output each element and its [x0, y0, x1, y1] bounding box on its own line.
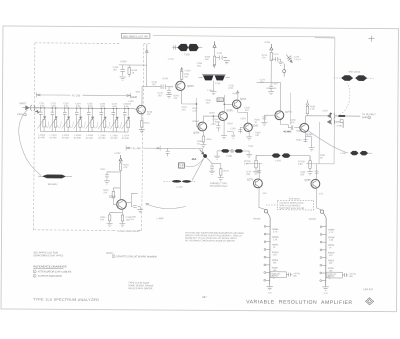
input coax cable curve [18, 110, 41, 176]
transistor Q285 [311, 179, 320, 188]
svg-text:Q255: Q255 [226, 109, 233, 112]
resistor R275B [307, 156, 313, 175]
coax to bowtie dashed curve [339, 83, 350, 115]
sel box 4.7 [179, 163, 185, 168]
cable shield T230 [42, 174, 66, 178]
Q265 emitter ground [238, 127, 252, 140]
svg-text:+225V: +225V [114, 153, 121, 155]
tuning arrow C238 [122, 117, 130, 129]
FL-260 enclosure bottom [113, 229, 142, 232]
svg-text:J-290: J-290 [336, 125, 342, 127]
level capacitor [342, 273, 348, 277]
svg-text:+225V: +225V [264, 42, 271, 44]
C273 [276, 57, 284, 65]
svg-text:46.4: 46.4 [218, 99, 223, 102]
svg-text:C291: C291 [322, 110, 328, 112]
Q264 collector [236, 90, 247, 123]
transistor Q264 [233, 100, 241, 108]
T255 secondary lead [211, 81, 217, 95]
svg-text:TUNED AMPLIFIER: TUNED AMPLIFIER [117, 230, 139, 233]
column ground [322, 285, 328, 290]
level capacitor [286, 273, 292, 277]
svg-text:82-460: 82-460 [74, 138, 82, 140]
vertical feed wire [289, 93, 291, 125]
Q260 emitter network [107, 209, 126, 227]
gang coupling arcs [45, 121, 121, 128]
svg-text:R270: R270 [223, 171, 229, 173]
+225V feed for Q260 [119, 155, 122, 161]
stub capacitor [166, 148, 170, 156]
wafer switch column SW280A [269, 217, 271, 284]
Q255 wires [216, 95, 232, 139]
tuning arrow C231 [38, 116, 46, 128]
reference drawing 1 [33, 270, 36, 273]
inductor L270 [163, 180, 196, 183]
base bypass vertical [166, 87, 172, 98]
svg-text:+225V: +225V [184, 70, 191, 72]
filter section C233 [63, 108, 70, 132]
svg-text:L-290: L-290 [340, 153, 346, 155]
svg-text:C273: C273 [273, 54, 279, 56]
T260 return ground [214, 151, 252, 160]
shield enclosure FL-230 [34, 43, 150, 231]
svg-text:82-460: 82-460 [62, 137, 70, 139]
wafer contact Q285 [320, 210, 323, 213]
svg-text:47K: 47K [123, 167, 127, 169]
svg-text:82-460: 82-460 [50, 137, 58, 139]
svg-text:NOTE:: NOTE: [106, 252, 114, 255]
svg-text:47K: 47K [147, 114, 151, 116]
svg-text:L274: L274 [273, 84, 279, 86]
svg-text:L-233A: L-233A [74, 134, 82, 137]
svg-text:L-275: L-275 [275, 161, 282, 163]
svg-text:SEE NOTE: SEE NOTE [289, 198, 301, 200]
svg-text:-12V: -12V [268, 292, 273, 294]
cable stub [38, 175, 72, 177]
svg-text:C261: C261 [100, 169, 106, 171]
top supply rail [153, 36, 335, 38]
wafer contact Q275 [264, 210, 267, 213]
R262 divider [112, 188, 120, 202]
C266 output cap [131, 203, 143, 213]
cluster interstage wires [196, 98, 235, 138]
svg-text:6.8K: 6.8K [244, 163, 249, 165]
wiper arrow [200, 149, 204, 154]
C261 branch [104, 172, 121, 184]
svg-text:L-231A: L-231A [50, 134, 58, 137]
svg-text:Q285: Q285 [304, 179, 311, 182]
filter section C232 [50, 108, 57, 132]
bias row wire [256, 82, 280, 110]
filter section C237 [111, 108, 118, 132]
R261 [119, 161, 122, 181]
svg-text:4.7K: 4.7K [273, 232, 278, 234]
svg-text:82-460: 82-460 [86, 138, 94, 140]
svg-text:27K: 27K [103, 192, 107, 194]
svg-text:SW280: SW280 [253, 218, 261, 220]
svg-text:POSITION ONLY: POSITION ONLY [210, 186, 228, 188]
svg-text:L-235A: L-235A [99, 134, 107, 137]
title diamond [366, 298, 374, 305]
column ground [266, 284, 272, 289]
resolution note box [277, 200, 314, 210]
transistor Q274 [275, 111, 284, 120]
svg-text:Q240: Q240 [130, 95, 137, 99]
svg-text:SWITCHES WITH SW-280: SWITCHES WITH SW-280 [279, 208, 305, 210]
svg-text:R257: R257 [215, 122, 221, 124]
coupling capacitor C247 [147, 84, 174, 89]
svg-text:C264: C264 [240, 118, 246, 120]
svg-text:INPUT: INPUT [19, 103, 27, 105]
lead to L270 [192, 158, 204, 181]
svg-text:R284: R284 [296, 140, 302, 142]
R253 [213, 47, 216, 68]
switching rail [247, 37, 335, 164]
T260 transformer [217, 149, 247, 153]
svg-text:R253A: R253A [192, 120, 199, 123]
svg-text:L-234A: L-234A [86, 134, 94, 137]
svg-text:RG-58/U: RG-58/U [48, 183, 58, 186]
Q254 wires [196, 104, 219, 148]
svg-text:2.2K: 2.2K [310, 109, 315, 111]
svg-text:82-460: 82-460 [111, 138, 119, 140]
input connector J-230 [22, 105, 39, 113]
svg-text:L&R 437: L&R 437 [363, 287, 374, 291]
filter section C235 [87, 108, 94, 132]
svg-text:R264: R264 [227, 123, 233, 125]
svg-text:R254: R254 [206, 139, 212, 141]
Q275 emitter wire [259, 188, 265, 210]
svg-text:2.2K: 2.2K [329, 240, 334, 242]
svg-text:ATTENUATOR & RF CABLES: ATTENUATOR & RF CABLES [38, 270, 72, 273]
svg-text:L-237A: L-237A [122, 134, 130, 137]
+225V feed arrow [213, 41, 216, 47]
cal adjust box [326, 272, 342, 278]
Q250 emitter wire [181, 90, 196, 104]
node branch components [206, 158, 223, 181]
Q240 emitter network [139, 113, 145, 133]
svg-text:SEE PARTS LIST 437: SEE PARTS LIST 437 [123, 34, 149, 38]
svg-text:10K: 10K [184, 76, 188, 78]
Q260 collector wire [126, 193, 138, 202]
Q284 collector to output [306, 116, 328, 124]
svg-text:L-232A: L-232A [62, 134, 70, 137]
filter section C231 [39, 108, 46, 132]
C253 [216, 56, 230, 64]
svg-text:4.7K: 4.7K [329, 232, 334, 234]
wire bus to Q240 base [133, 109, 136, 110]
svg-text:-12V: -12V [262, 193, 267, 195]
svg-text:C-251: C-251 [168, 59, 175, 61]
svg-text:FL-260: FL-260 [133, 147, 141, 150]
svg-text:Q274: Q274 [285, 111, 292, 114]
svg-text:VARIABLE RESOLUTION AMPLIFIER: VARIABLE RESOLUTION AMPLIFIER [246, 299, 353, 306]
svg-text:Q254: Q254 [193, 131, 200, 134]
svg-text:82-460: 82-460 [122, 138, 130, 140]
dimension arrow FL-230 [36, 92, 130, 98]
R273 [270, 50, 276, 83]
tuning arrow C232 [49, 116, 57, 128]
R283 feed [306, 100, 309, 116]
Q284 emitter [303, 132, 314, 151]
transformer T250 [172, 44, 202, 51]
svg-text:82-460: 82-460 [99, 138, 107, 140]
inductor L290 [350, 151, 372, 156]
sel value box [217, 98, 224, 102]
svg-text:82-460: 82-460 [38, 137, 46, 139]
emitter pickoff curve [308, 131, 348, 153]
input bus wire [28, 107, 133, 110]
leader to note [146, 203, 186, 209]
svg-text:L-AMP: L-AMP [157, 217, 165, 220]
reference drawing 2 [33, 274, 36, 277]
+225V feed arrow right [270, 44, 273, 50]
Q240 collector wire [142, 87, 147, 107]
bus junctions [40, 107, 129, 109]
svg-text:C267: C267 [248, 146, 254, 148]
svg-text:Q264: Q264 [240, 98, 247, 101]
svg-text:L-270: L-270 [176, 187, 183, 189]
registration cross [368, 36, 374, 42]
transistor Q265 [244, 123, 252, 131]
Q285 emitter wire [316, 188, 321, 210]
sel box leader [185, 159, 204, 167]
svg-text:T-250: T-250 [184, 54, 191, 56]
svg-text:-12V: -12V [135, 91, 140, 94]
svg-text:437: 437 [202, 295, 207, 299]
dimension line FL-260 [126, 145, 160, 150]
filter section C238 [123, 108, 130, 132]
tuning arrow C235 [86, 117, 94, 129]
svg-text:C260: C260 [230, 128, 236, 130]
svg-text:2.2K: 2.2K [273, 239, 278, 241]
transistor Q254 [198, 122, 207, 131]
svg-text:L-236A: L-236A [111, 134, 119, 137]
Q274 wires [261, 115, 300, 130]
note box leader [266, 204, 277, 206]
tuning arrow C234 [74, 117, 82, 129]
svg-text:R256: R256 [233, 93, 239, 95]
C248 decoupling block [119, 44, 149, 87]
transistor Q240 [137, 105, 146, 114]
svg-text:Q284: Q284 [306, 133, 313, 136]
svg-text:TYPE 1L5 SPECTRUM ANALYZER: TYPE 1L5 SPECTRUM ANALYZER [33, 298, 99, 302]
transistor Q255 [219, 112, 228, 121]
svg-text:-12V: -12V [324, 293, 329, 295]
svg-text:REFERENCE DRAWINGS: REFERENCE DRAWINGS [33, 264, 66, 268]
svg-text:15K: 15K [205, 59, 209, 61]
svg-text:R286: R286 [296, 131, 302, 133]
svg-text:OUTPUT AMPLIFIER: OUTPUT AMPLIFIER [38, 275, 62, 278]
transistor Q250 [176, 81, 185, 90]
filter section C236 [99, 108, 106, 132]
Q275 feed wire [257, 163, 261, 179]
tuning arrow C236 [98, 117, 106, 129]
trimmer C275 [283, 55, 293, 77]
svg-text:+225V: +225V [120, 60, 127, 63]
cal adjust box [270, 272, 286, 278]
svg-text:R249: R249 [163, 78, 169, 80]
Q285 feed wire [315, 164, 319, 180]
tuning arrow C237 [110, 117, 118, 129]
svg-text:-12V: -12V [318, 193, 323, 195]
output coax connectors [327, 113, 360, 129]
Q260 base wire [113, 180, 120, 204]
assembly reference box [121, 33, 150, 38]
svg-text:L-230A: L-230A [38, 134, 46, 137]
svg-text:VALUES MAY DIFFER: VALUES MAY DIFFER [128, 287, 152, 290]
svg-text:93Ω COAX: 93Ω COAX [349, 71, 361, 74]
transistor Q275 [253, 179, 262, 188]
mixer junction [203, 154, 207, 158]
junction dots [196, 103, 225, 117]
svg-text:2.2K: 2.2K [192, 110, 197, 112]
resistor R275A [253, 155, 259, 174]
svg-text:T-260: T-260 [226, 156, 233, 158]
svg-text:R255: R255 [209, 113, 215, 115]
svg-text:45.4MC: 45.4MC [283, 130, 292, 133]
svg-text:C253: C253 [217, 53, 223, 55]
svg-text:Q265: Q265 [252, 124, 259, 127]
Q250 collector R251 [180, 67, 183, 82]
filter section C234 [75, 108, 82, 132]
svg-text:27K: 27K [262, 57, 266, 59]
svg-text:FL-230: FL-230 [72, 93, 81, 97]
inductor L275 [256, 153, 310, 161]
svg-text:T-255: T-255 [215, 83, 221, 85]
svg-text:L255: L255 [208, 90, 214, 92]
wafer switch column SW280B [325, 218, 327, 285]
T255 core [199, 75, 230, 81]
svg-text:6.8K: 6.8K [298, 164, 303, 166]
svg-text:SEMICONDUCTOR TYPES: SEMICONDUCTOR TYPES [33, 254, 63, 257]
tuning arrow C233 [62, 117, 70, 129]
ground bus [40, 130, 128, 133]
svg-text:Q260: Q260 [109, 194, 116, 198]
svg-text:45A: 45A [192, 157, 197, 161]
svg-text:1.3-5.4: 1.3-5.4 [294, 59, 302, 61]
svg-text:Q275: Q275 [247, 178, 254, 181]
transistor Q260 [117, 200, 127, 210]
svg-text:VARIABLE THIS: VARIABLE THIS [210, 182, 227, 185]
svg-text:DENOTES CIRCUIT BOARD NUMBER: DENOTES CIRCUIT BOARD NUMBER [116, 255, 157, 258]
svg-text:SW280: SW280 [309, 219, 317, 221]
svg-text:R242: R242 [144, 123, 150, 125]
pickoff transformer L293 [334, 75, 374, 81]
wire to mixer node [160, 148, 203, 153]
transistor Q284 [300, 123, 309, 132]
svg-text:ALL READINGS TAKEN WITH 20,000: ALL READINGS TAKEN WITH 20,000 Ω/V METER… [185, 239, 236, 242]
svg-text:Q250: Q250 [187, 84, 194, 88]
